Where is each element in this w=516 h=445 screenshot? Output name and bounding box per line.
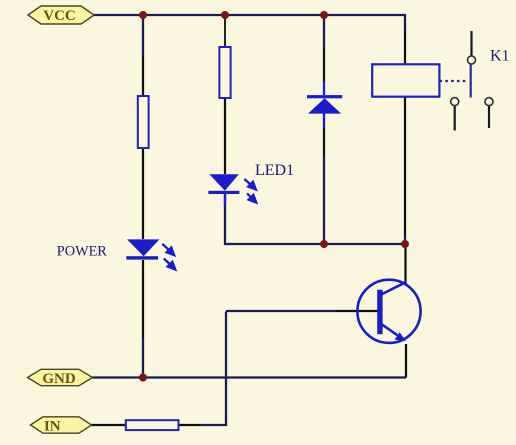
svg-text:GND: GND — [42, 371, 76, 387]
svg-text:POWER: POWER — [57, 243, 108, 259]
svg-text:K1: K1 — [490, 47, 510, 64]
svg-text:VCC: VCC — [43, 8, 76, 24]
svg-text:LED1: LED1 — [255, 162, 294, 179]
svg-text:IN: IN — [44, 418, 61, 434]
